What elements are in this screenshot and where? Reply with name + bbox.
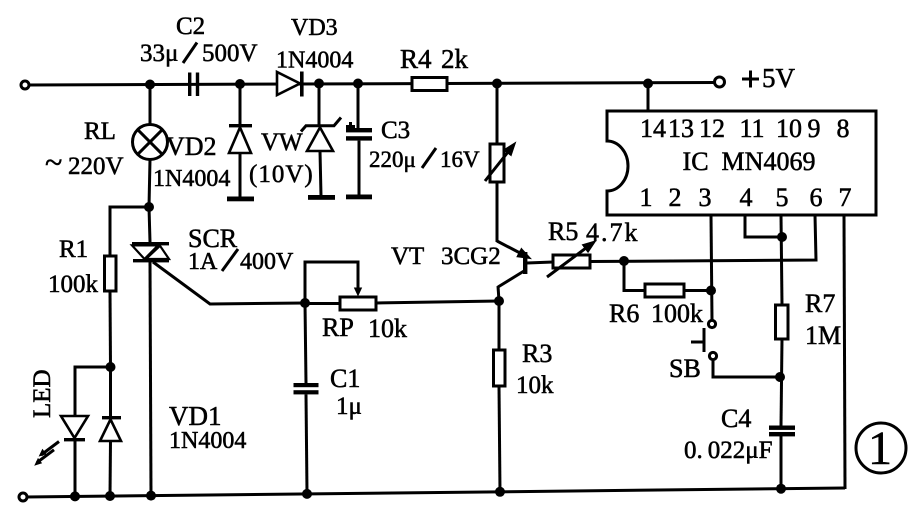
svg-text:(10V): (10V) — [249, 161, 314, 188]
svg-text:R3: R3 — [522, 339, 552, 368]
svg-text:R4: R4 — [400, 44, 432, 74]
svg-text:8: 8 — [837, 114, 850, 143]
wire RL top lead — [149, 84, 152, 125]
rheostat R5 — [547, 248, 590, 277]
svg-text:1A: 1A — [188, 249, 218, 275]
svg-text:4.7k: 4.7k — [586, 218, 640, 247]
node top rail at VD2 — [235, 79, 245, 89]
wire VT collector down — [498, 286, 499, 301]
svg-text:14: 14 — [640, 114, 666, 143]
wire pin5 down to R7 — [781, 215, 782, 305]
wire C1 top lead — [305, 303, 306, 383]
node R1/LED/VD1 — [106, 362, 116, 372]
wire C4 to bottom rail — [780, 436, 783, 489]
svg-text:10: 10 — [776, 114, 802, 143]
wire RL junction down to SCR — [149, 207, 150, 242]
resistor R7 — [776, 305, 789, 339]
node top rail at RL — [145, 80, 155, 90]
svg-text:9: 9 — [808, 114, 821, 143]
svg-text:R1: R1 — [59, 236, 88, 263]
wire RP right lead to VT — [376, 301, 499, 303]
label C3 value 220u/16V — [369, 147, 480, 172]
capacitor C1 — [294, 383, 319, 394]
svg-text:1N4004: 1N4004 — [153, 166, 230, 192]
wire R1 branch — [110, 207, 149, 256]
wire SCR cathode to bottom rail — [150, 262, 151, 495]
svg-text:5V: 5V — [762, 63, 796, 93]
diode VD3 — [277, 72, 304, 97]
svg-text:3: 3 — [699, 183, 712, 212]
wire R6 left lead — [624, 261, 645, 291]
wire pin3 down to switch — [711, 215, 712, 320]
wire R5 to pin6 — [590, 215, 816, 262]
terminal +5V — [715, 77, 725, 87]
lamp RL — [133, 125, 168, 160]
label C2 value 33u/500V — [140, 40, 258, 67]
svg-text:VD2: VD2 — [166, 132, 217, 161]
svg-text:SB: SB — [669, 354, 701, 383]
svg-text:33μ: 33μ — [140, 40, 178, 67]
wire R3 bottom lead — [499, 386, 500, 492]
svg-text:7: 7 — [839, 183, 852, 212]
svg-text:13: 13 — [668, 114, 694, 143]
label +5V — [742, 78, 759, 81]
wire bottom rail — [25, 488, 845, 497]
svg-text:1N4004: 1N4004 — [169, 428, 246, 454]
wire SB bottom to R7 line — [713, 360, 780, 377]
svg-text:12: 12 — [699, 114, 725, 143]
svg-text:~: ~ — [45, 144, 62, 180]
svg-text:VW: VW — [261, 129, 303, 156]
node top rail at VW — [314, 79, 324, 89]
node VT collector / RP wire / R3 — [494, 296, 504, 306]
wire pin14 stub to +5V rail — [647, 84, 650, 112]
node R5/R6 junction — [619, 256, 629, 266]
svg-text:10k: 10k — [368, 314, 407, 343]
svg-text:2: 2 — [669, 183, 682, 212]
label R4 2k — [400, 44, 469, 74]
node RL/R1/SCR junction — [144, 202, 154, 212]
thyristor SCR (triac symbol) — [132, 242, 169, 262]
svg-text:R5: R5 — [548, 217, 578, 246]
wire RP left lead — [305, 302, 340, 305]
wire R7 to C4 — [781, 339, 782, 426]
wire LED branch — [75, 367, 111, 416]
node top rail at pin14 — [643, 79, 653, 89]
svg-text:2k: 2k — [441, 44, 469, 74]
svg-text:C4: C4 — [721, 404, 751, 433]
svg-text:1: 1 — [868, 422, 892, 475]
node bottom rail C1 — [302, 489, 312, 499]
node bottom rail LED — [70, 491, 80, 501]
pushbutton SB — [691, 320, 717, 359]
svg-text:VT: VT — [391, 243, 424, 270]
svg-text:10k: 10k — [516, 372, 554, 399]
svg-text:1N4004: 1N4004 — [276, 48, 353, 74]
resistor R1 — [105, 256, 117, 291]
node bottom rail R3 — [495, 487, 505, 497]
label R5 4.7k — [548, 217, 640, 247]
LED — [34, 416, 88, 496]
node bottom rail C4 — [776, 484, 786, 494]
svg-text:RP: RP — [322, 313, 354, 342]
svg-text:400V: 400V — [240, 249, 294, 275]
variable resistor RT vertical — [485, 84, 508, 182]
capacitor C3 — [346, 84, 372, 200]
wire R1 to LED junction — [109, 291, 113, 367]
svg-text:VD3: VD3 — [291, 15, 338, 41]
node pin4/pin5 junction — [777, 232, 787, 242]
svg-text:1μ: 1μ — [336, 393, 362, 420]
node top rail at C3 — [353, 79, 363, 89]
label SCR value 1A/400V — [188, 249, 294, 275]
svg-text:220V: 220V — [68, 153, 124, 180]
svg-text:RL: RL — [84, 118, 116, 145]
svg-text:C1: C1 — [330, 364, 360, 393]
svg-text:4: 4 — [740, 183, 753, 212]
svg-text:5: 5 — [776, 183, 789, 212]
label RP 10k — [322, 313, 407, 343]
capacitor C4 — [769, 426, 795, 437]
svg-text:R7: R7 — [805, 289, 835, 318]
svg-text:500V: 500V — [202, 40, 258, 67]
IC U1 MN4069 body — [607, 111, 876, 215]
svg-text:16V: 16V — [440, 147, 480, 172]
wire RP wiper bracket — [305, 262, 358, 303]
node bottom rail SCR — [146, 491, 156, 501]
svg-text:1M: 1M — [805, 321, 841, 350]
node R6/pin3 junction — [706, 286, 716, 296]
node SB/R7 junction — [775, 372, 785, 382]
svg-text:VD1: VD1 — [169, 401, 222, 431]
svg-text:0. 022μF: 0. 022μF — [684, 437, 773, 464]
wire R3 top lead — [498, 301, 501, 350]
svg-text:IC MN4069: IC MN4069 — [683, 147, 816, 176]
wire RL bottom lead — [149, 160, 150, 208]
resistor R3 — [494, 350, 506, 386]
diode VD1 — [100, 367, 121, 496]
resistor R4 — [412, 78, 447, 91]
wire pin4 stub bracket — [745, 215, 782, 237]
svg-text:11: 11 — [739, 114, 764, 143]
wire C1 bottom lead — [306, 394, 307, 493]
svg-text:LED: LED — [29, 369, 56, 418]
resistor R6 — [645, 284, 684, 297]
svg-text:6: 6 — [810, 183, 823, 212]
diode VD2 — [227, 84, 254, 201]
zener VW — [301, 84, 341, 200]
label R6 100k — [609, 299, 703, 328]
terminal AC input top — [21, 81, 29, 89]
wire pin7 down to bottom rail — [844, 215, 845, 489]
wire SCR gate diagonal — [153, 262, 305, 304]
potentiometer RP — [340, 297, 376, 310]
svg-text:100k: 100k — [48, 271, 99, 298]
svg-text:1: 1 — [640, 183, 653, 212]
label VT 3CG2 — [391, 243, 501, 270]
svg-text:100k: 100k — [651, 299, 703, 328]
terminal AC input bottom — [19, 493, 27, 501]
node top rail at RT — [492, 79, 502, 89]
wire R6 right lead — [684, 289, 711, 292]
svg-text:R6: R6 — [609, 299, 639, 328]
wire VT emitter up — [496, 182, 499, 242]
pin numbers top row — [640, 114, 850, 143]
transistor VT 3CG2 — [497, 241, 553, 287]
figure number 1 (circled) — [856, 422, 906, 475]
wire top rail — [27, 83, 715, 86]
pin numbers bottom row — [640, 183, 852, 212]
svg-text:220μ: 220μ — [369, 147, 416, 172]
svg-text:C3: C3 — [381, 117, 410, 144]
capacitor C2 — [188, 73, 199, 97]
node gate/RP/C1 junction — [300, 298, 310, 308]
svg-text:3CG2: 3CG2 — [441, 243, 501, 270]
svg-text:C2: C2 — [176, 13, 205, 40]
node bottom rail VD1 — [105, 491, 115, 501]
